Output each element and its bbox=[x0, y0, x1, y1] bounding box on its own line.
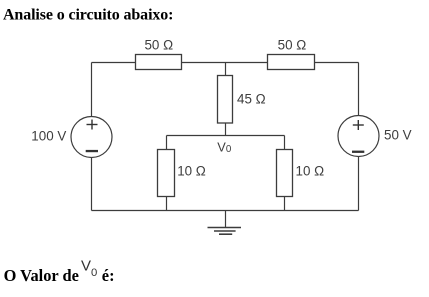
svg-text:Analise o circuito abaixo:: Analise o circuito abaixo: bbox=[3, 7, 173, 24]
svg-text:10 Ω: 10 Ω bbox=[177, 163, 206, 178]
svg-text:50 V: 50 V bbox=[384, 128, 412, 143]
svg-text:100 V: 100 V bbox=[31, 128, 66, 143]
svg-text:é:: é: bbox=[102, 266, 115, 285]
svg-text:50 Ω: 50 Ω bbox=[144, 38, 173, 53]
svg-text:V0: V0 bbox=[217, 140, 232, 156]
svg-text:45 Ω: 45 Ω bbox=[237, 92, 266, 107]
svg-text:V0: V0 bbox=[81, 257, 97, 279]
svg-text:10 Ω: 10 Ω bbox=[296, 163, 325, 178]
svg-text:O Valor de: O Valor de bbox=[4, 266, 79, 285]
svg-text:50 Ω: 50 Ω bbox=[278, 38, 307, 53]
